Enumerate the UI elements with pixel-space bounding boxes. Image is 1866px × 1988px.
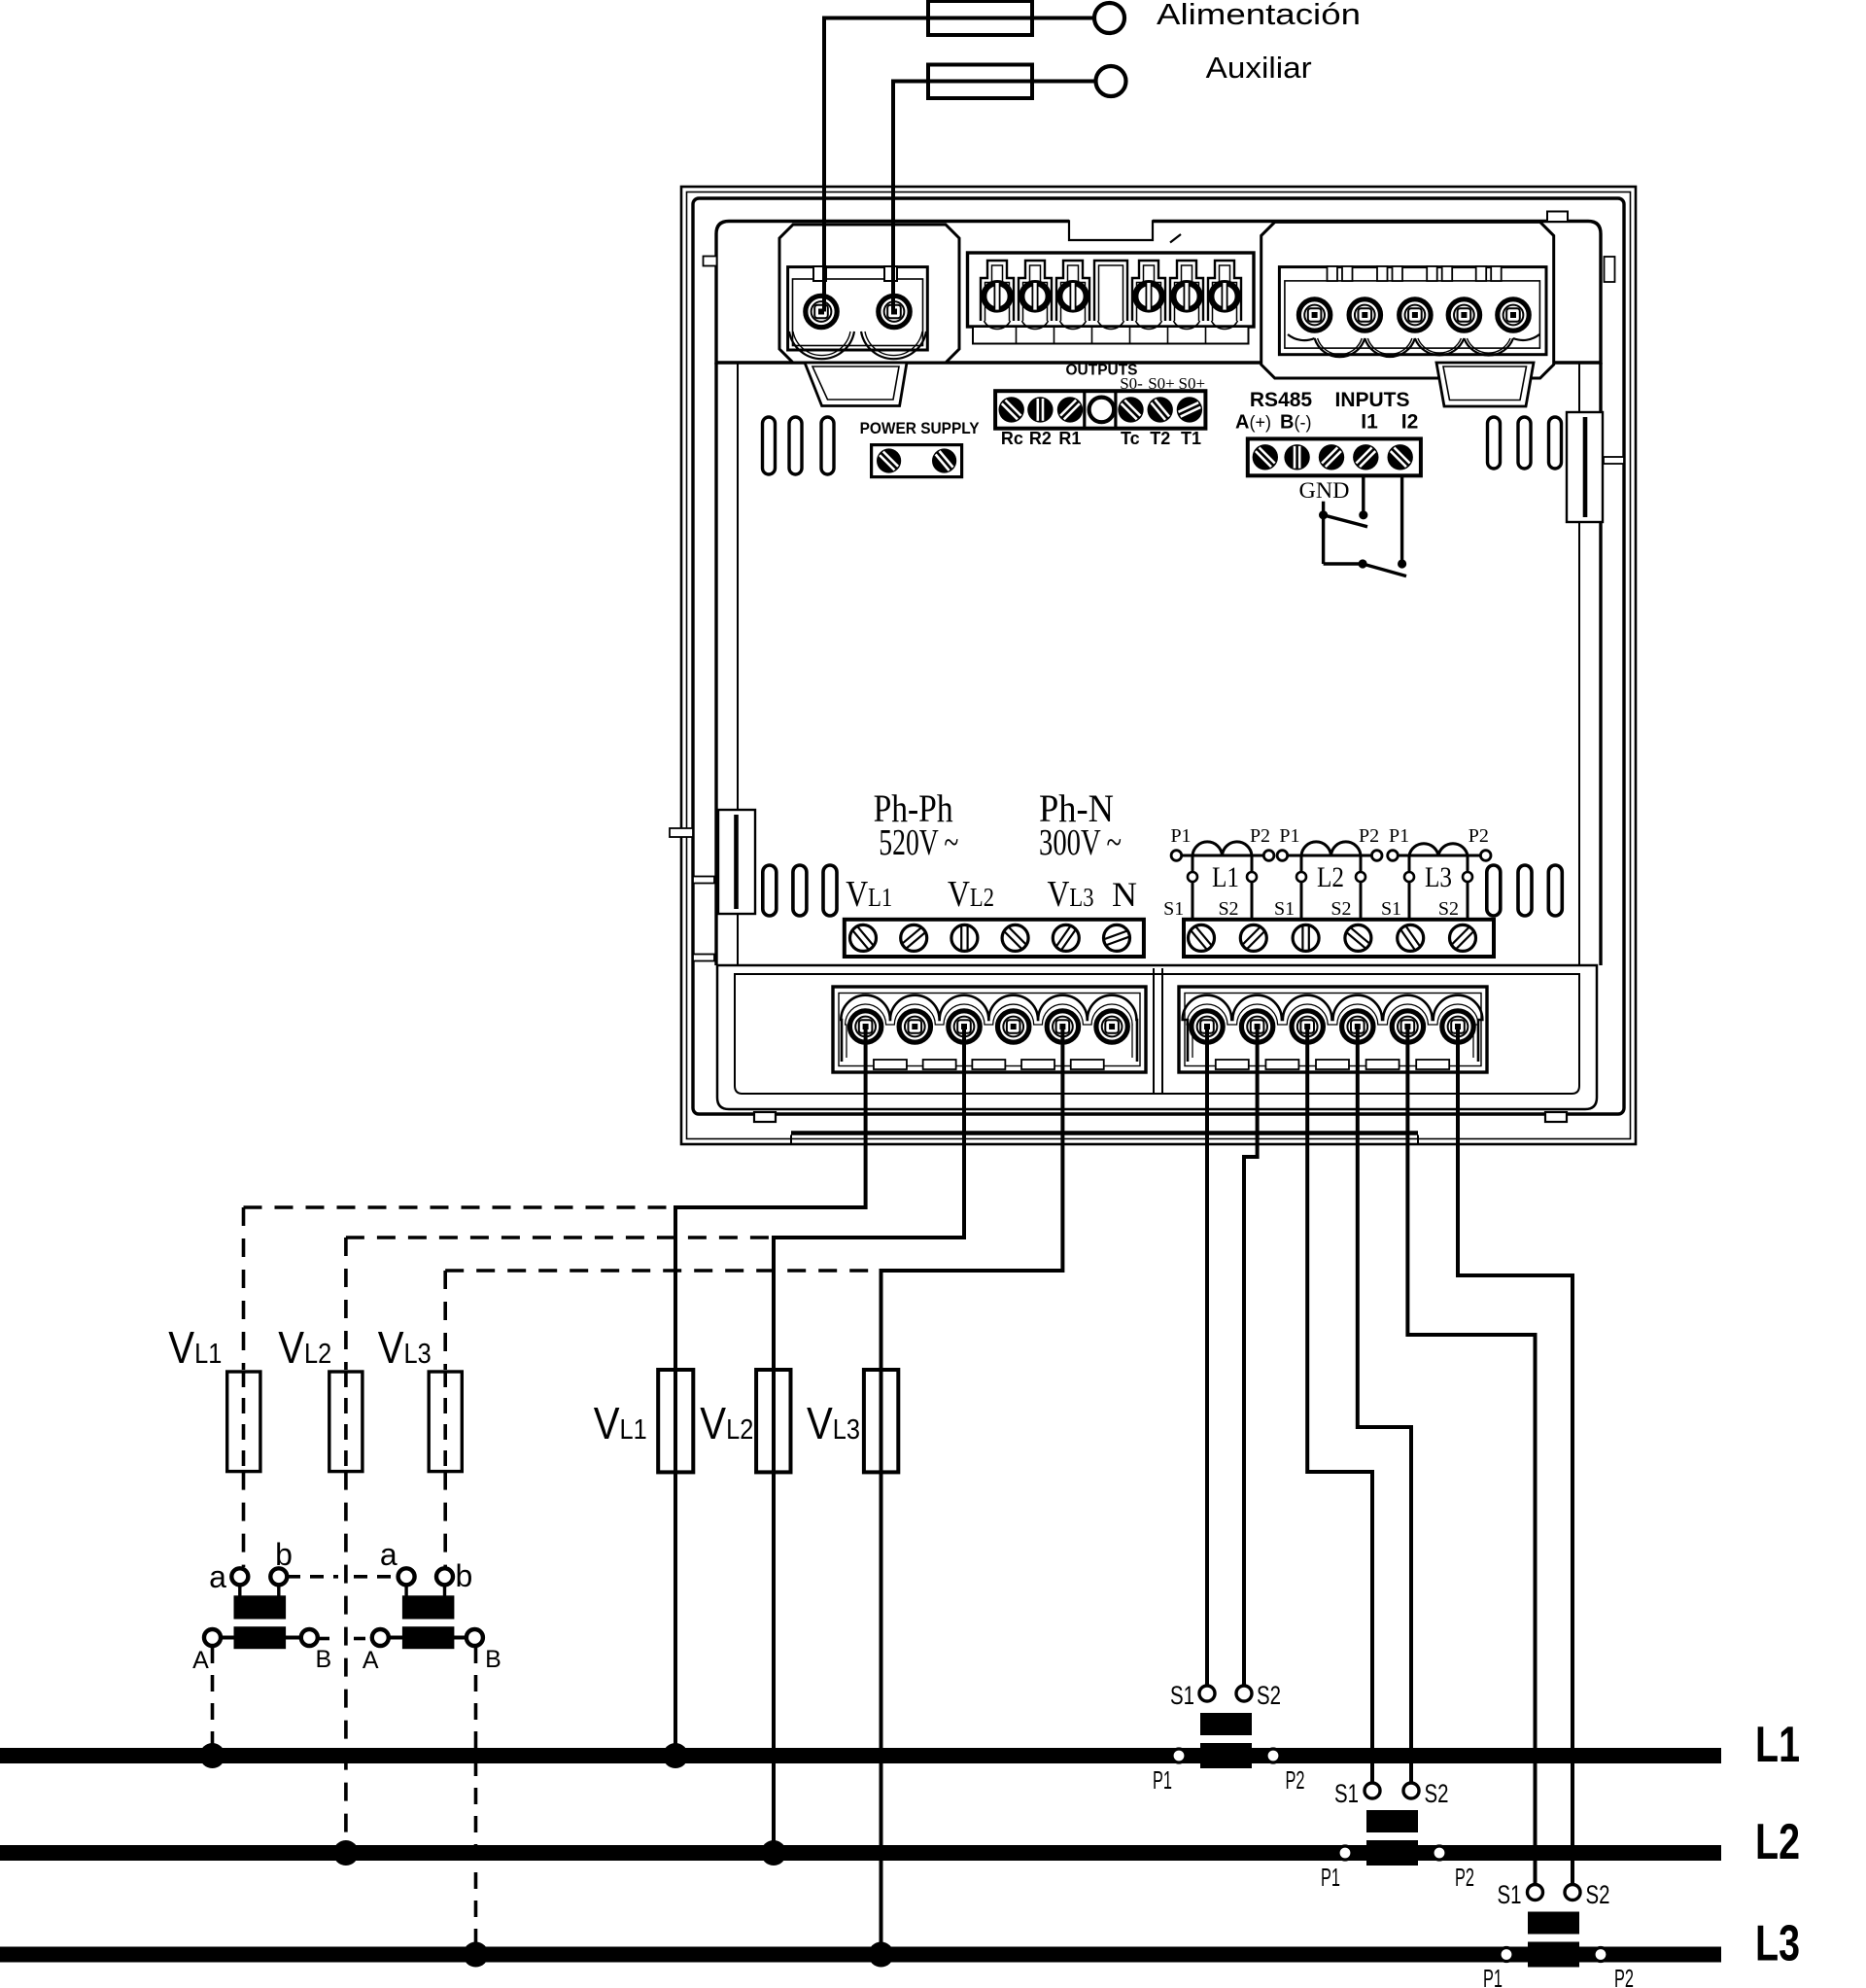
junction dot L3 fuse [869, 1942, 894, 1968]
connector J2 cells [981, 261, 1241, 329]
wire VL1 to fuse [675, 1027, 866, 1370]
svg-text:L3: L3 [1755, 1916, 1800, 1972]
wire VL2 to fuse [774, 1027, 964, 1370]
vent slots top-right [1488, 417, 1562, 469]
connector J1 terminal body [788, 267, 928, 350]
wire CT1 S2 [1244, 1027, 1258, 1693]
terminal circle aux 1 [1094, 3, 1124, 33]
svg-text:300V ~: 300V ~ [1039, 822, 1122, 863]
bottom connector block current [1179, 987, 1487, 1072]
label GND [1299, 478, 1350, 503]
connector J1 power supply housing [779, 225, 959, 363]
svg-text:S2: S2 [1438, 898, 1459, 920]
CT2 labels S1 S2 P1 P2 [1321, 1779, 1474, 1892]
dashed drop A1 to L1 [211, 1647, 215, 1756]
screw J1-1 [806, 296, 837, 327]
svg-text:I1: I1 [1361, 411, 1378, 434]
terminal strip power supply [872, 445, 962, 477]
fuse VL3 middle [864, 1370, 898, 1472]
svg-text:P2: P2 [1286, 1765, 1305, 1795]
wire CT3 S1 [1407, 1027, 1535, 1893]
terminal strip voltage [845, 920, 1144, 957]
junction dot L3 PT [464, 1942, 489, 1968]
svg-text:Tc: Tc [1121, 429, 1140, 448]
svg-text:N: N [1112, 875, 1137, 914]
svg-text:b: b [456, 1558, 473, 1593]
fuse VL1 PT [227, 1372, 260, 1472]
svg-text:S2: S2 [1257, 1681, 1281, 1710]
PT1 terminal labels a b A B [192, 1537, 331, 1674]
connector J1 scallop [789, 331, 926, 359]
svg-text:RS485: RS485 [1250, 389, 1313, 411]
connector J1 tongue [805, 363, 907, 406]
svg-text:S2: S2 [1218, 898, 1238, 920]
vent slots bottom-right [1487, 865, 1563, 916]
screw J1-2 [879, 296, 910, 327]
connector J3 inputs housing [1261, 222, 1554, 378]
CT symbol L2 (meter) [1277, 842, 1382, 920]
labels S0- S0+ S0+ [1120, 374, 1205, 393]
top connector band [716, 222, 1601, 364]
wire aux phase 1 [824, 18, 1094, 312]
wire CT2 S2 [1358, 1027, 1411, 1792]
labels VL1 VL2 VL3 (PT fuses) [168, 1322, 431, 1373]
screw J3-2 [1349, 299, 1380, 331]
svg-text:B: B [315, 1646, 331, 1673]
wire aux 2 into terminal [891, 189, 895, 312]
connector J2 outputs housing [968, 253, 1255, 327]
svg-text:A(+): A(+) [1235, 412, 1271, 434]
terminal strip outputs [995, 391, 1205, 429]
dashed link b1-node-a2 [287, 1575, 397, 1579]
meter case inner line [687, 192, 1631, 1139]
terminal strip current [1184, 920, 1494, 957]
svg-text:P2: P2 [1455, 1863, 1474, 1892]
bottom recess [717, 965, 1597, 1109]
CT symbol L3 (meter) [1388, 844, 1491, 920]
connector J1 wire notches [813, 266, 897, 281]
labels P1 P2 (meter CTs) [1170, 825, 1488, 847]
fuse VL1 middle [658, 1370, 693, 1472]
labels VL1 VL2 VL3 (middle fuses) [594, 1398, 860, 1448]
wire CT1 S1 [1205, 1027, 1209, 1693]
wire aux 1 into terminal [822, 189, 826, 312]
svg-text:P1: P1 [1279, 825, 1299, 847]
CT symbol L1 (meter) [1171, 842, 1274, 920]
bottom connector block voltage [833, 987, 1146, 1072]
case bottom edge [791, 1134, 1418, 1144]
svg-text:L1: L1 [1212, 861, 1239, 893]
label Alimentacion Auxiliar [1157, 0, 1361, 85]
label OUTPUTS [1066, 363, 1138, 379]
wire fuse VL1 to bus L1 [674, 1370, 677, 1756]
terminal circle aux 2 [1096, 66, 1126, 96]
dashed wire VL2 (PT) [346, 1238, 769, 1370]
labels A(+) B(-) I1 I2 [1235, 411, 1418, 434]
junction dot L2 PT [333, 1840, 359, 1866]
wire fuse VL2 to bus L2 [772, 1370, 776, 1853]
label Ph-Ph 520V [874, 786, 959, 863]
connector J3 scallop [1288, 334, 1539, 357]
svg-text:T2: T2 [1150, 429, 1170, 448]
labels Rc R2 R1 Tc T2 T1 [1001, 429, 1201, 448]
svg-text:L3: L3 [1425, 861, 1452, 893]
current transformer CT2 on L2 [1338, 1783, 1446, 1866]
svg-text:P1: P1 [1389, 825, 1409, 847]
wire fuse VL3 to bus L3 [880, 1370, 883, 1955]
fuse VL2 PT [329, 1372, 363, 1472]
bus L3 [0, 1947, 1721, 1963]
screw J3-5 [1498, 299, 1529, 331]
mounting clip right [1567, 412, 1624, 522]
label RS485 INPUTS [1250, 389, 1410, 411]
connector J2 skirt [973, 327, 1249, 344]
vent slots top-left [763, 417, 835, 474]
bus L2 [0, 1845, 1721, 1861]
wire CT2 S1 [1307, 1027, 1372, 1792]
wire aux phase 2 [893, 82, 1096, 312]
current transformer CT3 on L3 [1500, 1885, 1607, 1968]
CT1 labels S1 S2 P1 P2 [1153, 1681, 1305, 1795]
band notch above middle connector [1069, 218, 1153, 240]
svg-text:T1: T1 [1181, 429, 1201, 448]
svg-text:a: a [380, 1537, 397, 1572]
band corner tab [670, 212, 1615, 838]
label Ph-N 300V [1039, 786, 1122, 863]
mounting clip left [693, 810, 755, 961]
dashed wire VL1 (PT) [244, 1207, 672, 1370]
fuse VL3 PT [429, 1372, 462, 1472]
svg-text:GND: GND [1299, 478, 1350, 503]
svg-text:S2: S2 [1425, 1779, 1449, 1808]
voltage transformer PT2 [372, 1568, 483, 1649]
terminal strip RS485 inputs [1248, 438, 1421, 475]
junction dot L1 fuse [663, 1743, 688, 1768]
dashed wire fuse2 to node [344, 1472, 348, 1845]
svg-text:Auxiliar: Auxiliar [1206, 51, 1312, 85]
svg-text:S1: S1 [1170, 1681, 1194, 1710]
fuse F2 auxiliary [928, 65, 1032, 99]
svg-text:R1: R1 [1058, 429, 1081, 448]
wire CT3 S2 [1458, 1027, 1572, 1893]
svg-text:S1: S1 [1381, 898, 1401, 920]
screw J3-4 [1448, 299, 1479, 331]
connector J3 tongue [1436, 363, 1534, 406]
svg-text:P1: P1 [1170, 825, 1191, 847]
recess divider [1154, 968, 1162, 1094]
screw J3-1 [1298, 299, 1330, 331]
svg-text:a: a [209, 1559, 226, 1594]
case feet [754, 1112, 1567, 1122]
orientation tick [1170, 234, 1181, 243]
junction dot L2 fuse [761, 1840, 786, 1866]
labels VL1 VL2 VL3 N [846, 874, 1137, 915]
dashed wire fuse3 to PT2 b [443, 1472, 447, 1567]
wire VL3 to fuse [881, 1027, 1063, 1370]
svg-text:Rc: Rc [1001, 429, 1023, 448]
svg-text:S1: S1 [1274, 898, 1295, 920]
svg-text:S1: S1 [1163, 898, 1184, 920]
meter outer case [681, 187, 1636, 1144]
svg-text:Alimentación: Alimentación [1157, 0, 1361, 31]
labels S1 S2 (meter CTs) [1163, 898, 1459, 920]
svg-text:I2: I2 [1401, 411, 1419, 434]
svg-text:POWER SUPPLY: POWER SUPPLY [860, 420, 980, 437]
dashed wire VL3 (PT) [445, 1271, 876, 1370]
svg-text:P2: P2 [1250, 825, 1270, 847]
bus L1 [0, 1748, 1721, 1763]
input switch circuit [1319, 475, 1406, 575]
connector J3 terminal body [1279, 267, 1546, 355]
svg-text:P2: P2 [1359, 825, 1379, 847]
svg-text:P1: P1 [1153, 1765, 1172, 1795]
meter inner body [693, 198, 1624, 1114]
svg-text:P1: P1 [1321, 1863, 1340, 1892]
svg-text:P2: P2 [1469, 825, 1489, 847]
svg-text:R2: R2 [1029, 429, 1052, 448]
svg-text:L1: L1 [1755, 1717, 1800, 1773]
voltage transformer PT1 [204, 1568, 318, 1649]
svg-text:INPUTS: INPUTS [1334, 389, 1409, 411]
svg-text:b: b [275, 1537, 293, 1572]
svg-text:P2: P2 [1614, 1964, 1634, 1988]
svg-text:B: B [485, 1646, 501, 1673]
svg-text:S1: S1 [1334, 1779, 1359, 1808]
CT3 labels S1 S2 P1 P2 [1483, 1880, 1634, 1988]
svg-text:S2: S2 [1330, 898, 1351, 920]
svg-text:S2: S2 [1586, 1880, 1610, 1909]
svg-text:L2: L2 [1317, 861, 1344, 893]
svg-text:A: A [363, 1647, 379, 1674]
screw J3-3 [1399, 299, 1431, 331]
dashed drop B2 to L3 [474, 1647, 478, 1955]
label POWER SUPPLY [860, 420, 980, 437]
svg-text:520V ~: 520V ~ [879, 822, 958, 863]
dashed link B1-node-A2 [318, 1637, 371, 1641]
dashed wire fuse1 to PT1 a [242, 1472, 246, 1567]
dashed drop node to L2 [344, 1845, 348, 1853]
connector J3 wire notches [1328, 266, 1502, 281]
fuse VL2 middle [756, 1370, 790, 1472]
junction dot L1 PT [200, 1743, 225, 1768]
vent slots bottom-left [763, 865, 837, 916]
svg-text:L2: L2 [1755, 1814, 1800, 1870]
svg-text:B(-): B(-) [1280, 412, 1311, 434]
PT2 terminal labels a b A B [363, 1537, 501, 1674]
svg-text:A: A [192, 1647, 209, 1674]
svg-text:P1: P1 [1483, 1964, 1503, 1988]
current transformer CT1 on L1 [1172, 1686, 1280, 1768]
screws J2 [984, 282, 1237, 310]
bus labels L1 L2 L3 [1755, 1717, 1800, 1972]
inner panel sides [716, 363, 1601, 965]
svg-text:S1: S1 [1498, 1880, 1522, 1909]
fuse F1 auxiliary [928, 1, 1032, 35]
